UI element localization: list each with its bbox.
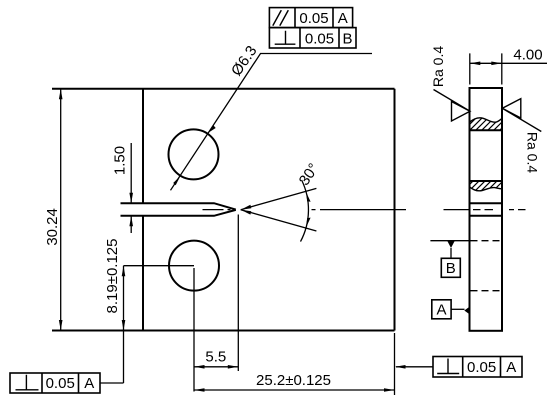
arrow at notch tip lower bbox=[241, 210, 252, 215]
datum B stem bbox=[450, 248, 452, 258]
side center line dash-dot bbox=[444, 209, 526, 211]
plate top edge with left extension bbox=[52, 88, 395, 90]
fcf top row2 perpendicularity bbox=[269, 28, 356, 48]
side hatch band1 wavy break line bbox=[470, 118, 503, 122]
plate left edge lower segment bbox=[142, 216, 144, 331]
side notch bottom line bbox=[470, 215, 503, 217]
svg-text:25.2±0.125: 25.2±0.125 bbox=[256, 372, 331, 389]
surface finish symbol right bbox=[502, 99, 541, 132]
plate bottom edge with left extension bbox=[52, 330, 395, 332]
svg-text:B: B bbox=[342, 31, 352, 48]
label 30deg bbox=[296, 160, 323, 188]
dim 5.5 line bbox=[194, 366, 238, 368]
side hidden line hole2 top with B extension bbox=[430, 240, 469, 242]
side hatch band2 hole bottom line bbox=[470, 180, 503, 182]
dim 4.00 extension lines bbox=[470, 53, 502, 84]
angle arc bbox=[301, 180, 309, 242]
fcf bottom-right frame bbox=[433, 357, 522, 378]
svg-text:A: A bbox=[338, 10, 348, 27]
dim 30.24 line bbox=[60, 89, 62, 331]
svg-text:8.19±0.125: 8.19±0.125 bbox=[104, 239, 121, 314]
dim 5.5 arrow left bbox=[194, 365, 205, 369]
dim 30.24 arrow bottom bbox=[59, 320, 63, 331]
side hatch band2 wavy break line bbox=[470, 187, 503, 191]
datum B triangle bbox=[447, 241, 455, 248]
arc arrow lower bbox=[306, 218, 310, 228]
dim 4.00 arrow right bbox=[491, 62, 502, 66]
datum B box bbox=[441, 258, 460, 277]
dim 1.50 arrow upper bbox=[129, 193, 133, 204]
dim 1.50 line upper segment bbox=[130, 143, 132, 203]
leader bottom-left fcf bbox=[100, 382, 124, 384]
side hidden line hole2 bottom bbox=[471, 290, 500, 292]
svg-text:A: A bbox=[84, 375, 94, 392]
dim 30.24 arrow top bbox=[59, 89, 63, 100]
fcf top row1 parallelism bbox=[269, 8, 352, 28]
surface finish symbol left bbox=[434, 90, 471, 122]
svg-text:5.5: 5.5 bbox=[205, 349, 226, 366]
dim 1.50 arrow lower bbox=[129, 216, 133, 227]
hole H2 lower bbox=[169, 241, 219, 291]
dim 4.00 arrow left bbox=[470, 62, 481, 66]
plate left edge upper segment bbox=[142, 89, 144, 204]
svg-text:0.05: 0.05 bbox=[467, 359, 496, 376]
svg-text:30.24: 30.24 bbox=[44, 208, 61, 246]
dim 8.19 horizontal leader to hole center bbox=[124, 265, 195, 267]
extension line from hole center down bbox=[193, 268, 195, 392]
dim 8.19 arrow top bbox=[122, 266, 126, 277]
datum A box bbox=[432, 300, 451, 319]
dia leader line bbox=[171, 54, 373, 191]
30deg angle line lower bbox=[241, 210, 317, 231]
label Ra 0.4 right bbox=[525, 132, 541, 173]
svg-text:A: A bbox=[506, 359, 516, 376]
datum A leader bbox=[451, 308, 464, 310]
leader bottom-right fcf bbox=[396, 366, 433, 368]
dim 8.19 vertical line bbox=[123, 266, 125, 383]
svg-text:0.05: 0.05 bbox=[299, 10, 328, 27]
datum A triangle bbox=[464, 307, 470, 315]
dia arrow lower bbox=[173, 176, 180, 185]
30deg angle line upper bbox=[241, 188, 317, 209]
fcf bottom-left frame bbox=[10, 373, 100, 393]
label dia 6.3 bbox=[228, 43, 261, 79]
side notch top line bbox=[470, 202, 503, 204]
arc arrow upper bbox=[306, 192, 310, 202]
parallelism symbol bbox=[273, 10, 289, 26]
dim 25.2 line bbox=[194, 389, 395, 391]
label 1.50 bbox=[112, 146, 129, 175]
plate right edge bbox=[394, 89, 396, 331]
svg-text:0.05: 0.05 bbox=[305, 31, 334, 48]
dim 5.5 arrow right bbox=[228, 365, 239, 369]
dim 8.19 arrow bottom bbox=[122, 320, 126, 331]
svg-text:Ra 0.4: Ra 0.4 bbox=[525, 132, 541, 173]
dim 25.2 arrow right bbox=[384, 388, 395, 392]
svg-text:A: A bbox=[436, 302, 446, 319]
hole H1 upper bbox=[169, 129, 219, 179]
svg-text:0.05: 0.05 bbox=[46, 375, 75, 392]
perpendicularity symbol bottom-right bbox=[437, 359, 459, 374]
label 30.24 bbox=[44, 208, 61, 246]
svg-text:B: B bbox=[446, 260, 456, 277]
svg-text:Ra 0.4: Ra 0.4 bbox=[430, 46, 446, 87]
perpendicularity symbol bottom-left bbox=[16, 375, 39, 390]
dim 4.00 line bbox=[470, 62, 547, 64]
notch center line dash-dot bbox=[203, 209, 407, 211]
leader arrow bottom-right bbox=[395, 365, 406, 369]
extension line plate right down bbox=[394, 333, 396, 395]
dim 25.2 arrow left bbox=[194, 388, 205, 392]
label Ra 0.4 left bbox=[430, 46, 446, 87]
dim 1.50 line lower segment bbox=[130, 216, 132, 233]
svg-text:4.00: 4.00 bbox=[513, 46, 542, 63]
label 8.19 tol bbox=[104, 239, 121, 314]
extension line from notch tip down bbox=[237, 215, 239, 372]
side hatch band1 hole top line bbox=[470, 129, 503, 131]
perpendicularity symbol row2 bbox=[275, 31, 296, 44]
side view outline bbox=[470, 88, 503, 331]
dia arrow upper bbox=[207, 126, 216, 134]
arrow at notch tip upper bbox=[241, 205, 252, 210]
notch slot top edge bbox=[121, 203, 236, 209]
notch slot bottom edge bbox=[121, 210, 236, 216]
svg-text:1.50: 1.50 bbox=[112, 146, 129, 175]
